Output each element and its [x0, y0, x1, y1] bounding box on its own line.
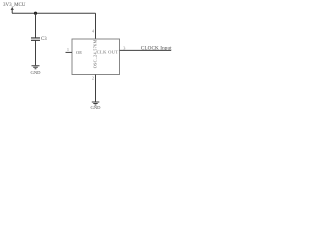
pin 1 stub (OE) [66, 51, 73, 53]
svg-text:GND: GND [31, 70, 42, 75]
wire VDD rail drop to pin 4 [95, 13, 97, 39]
wire VDD rail horizontal [12, 12, 96, 14]
svg-text:4: 4 [92, 28, 95, 33]
svg-text:OE: OE [76, 50, 82, 55]
svg-text:C3: C3 [41, 37, 47, 42]
svg-text:2: 2 [92, 75, 94, 80]
wire pin 3 to CLOCK Input [120, 49, 172, 51]
wire C3 to ground [35, 40, 37, 65]
oscillator U1 body [72, 39, 120, 75]
svg-text:CLK OUT: CLK OUT [97, 50, 119, 55]
ground symbol (bottom) [92, 102, 100, 105]
svg-text:3V3_MCU: 3V3_MCU [3, 3, 26, 8]
svg-text:1: 1 [67, 47, 69, 52]
capacitor C3 [31, 38, 40, 40]
wire junction to C3 [35, 13, 37, 37]
svg-text:GND: GND [91, 105, 102, 110]
wire pin 2 to ground [95, 75, 97, 102]
power symbol 3V3_MCU (arrow) [11, 8, 13, 13]
svg-text:3: 3 [123, 46, 125, 51]
ground symbol (left) [32, 66, 40, 69]
svg-text:CLOCK Input: CLOCK Input [141, 45, 172, 51]
junction at C3 branch [34, 12, 37, 15]
